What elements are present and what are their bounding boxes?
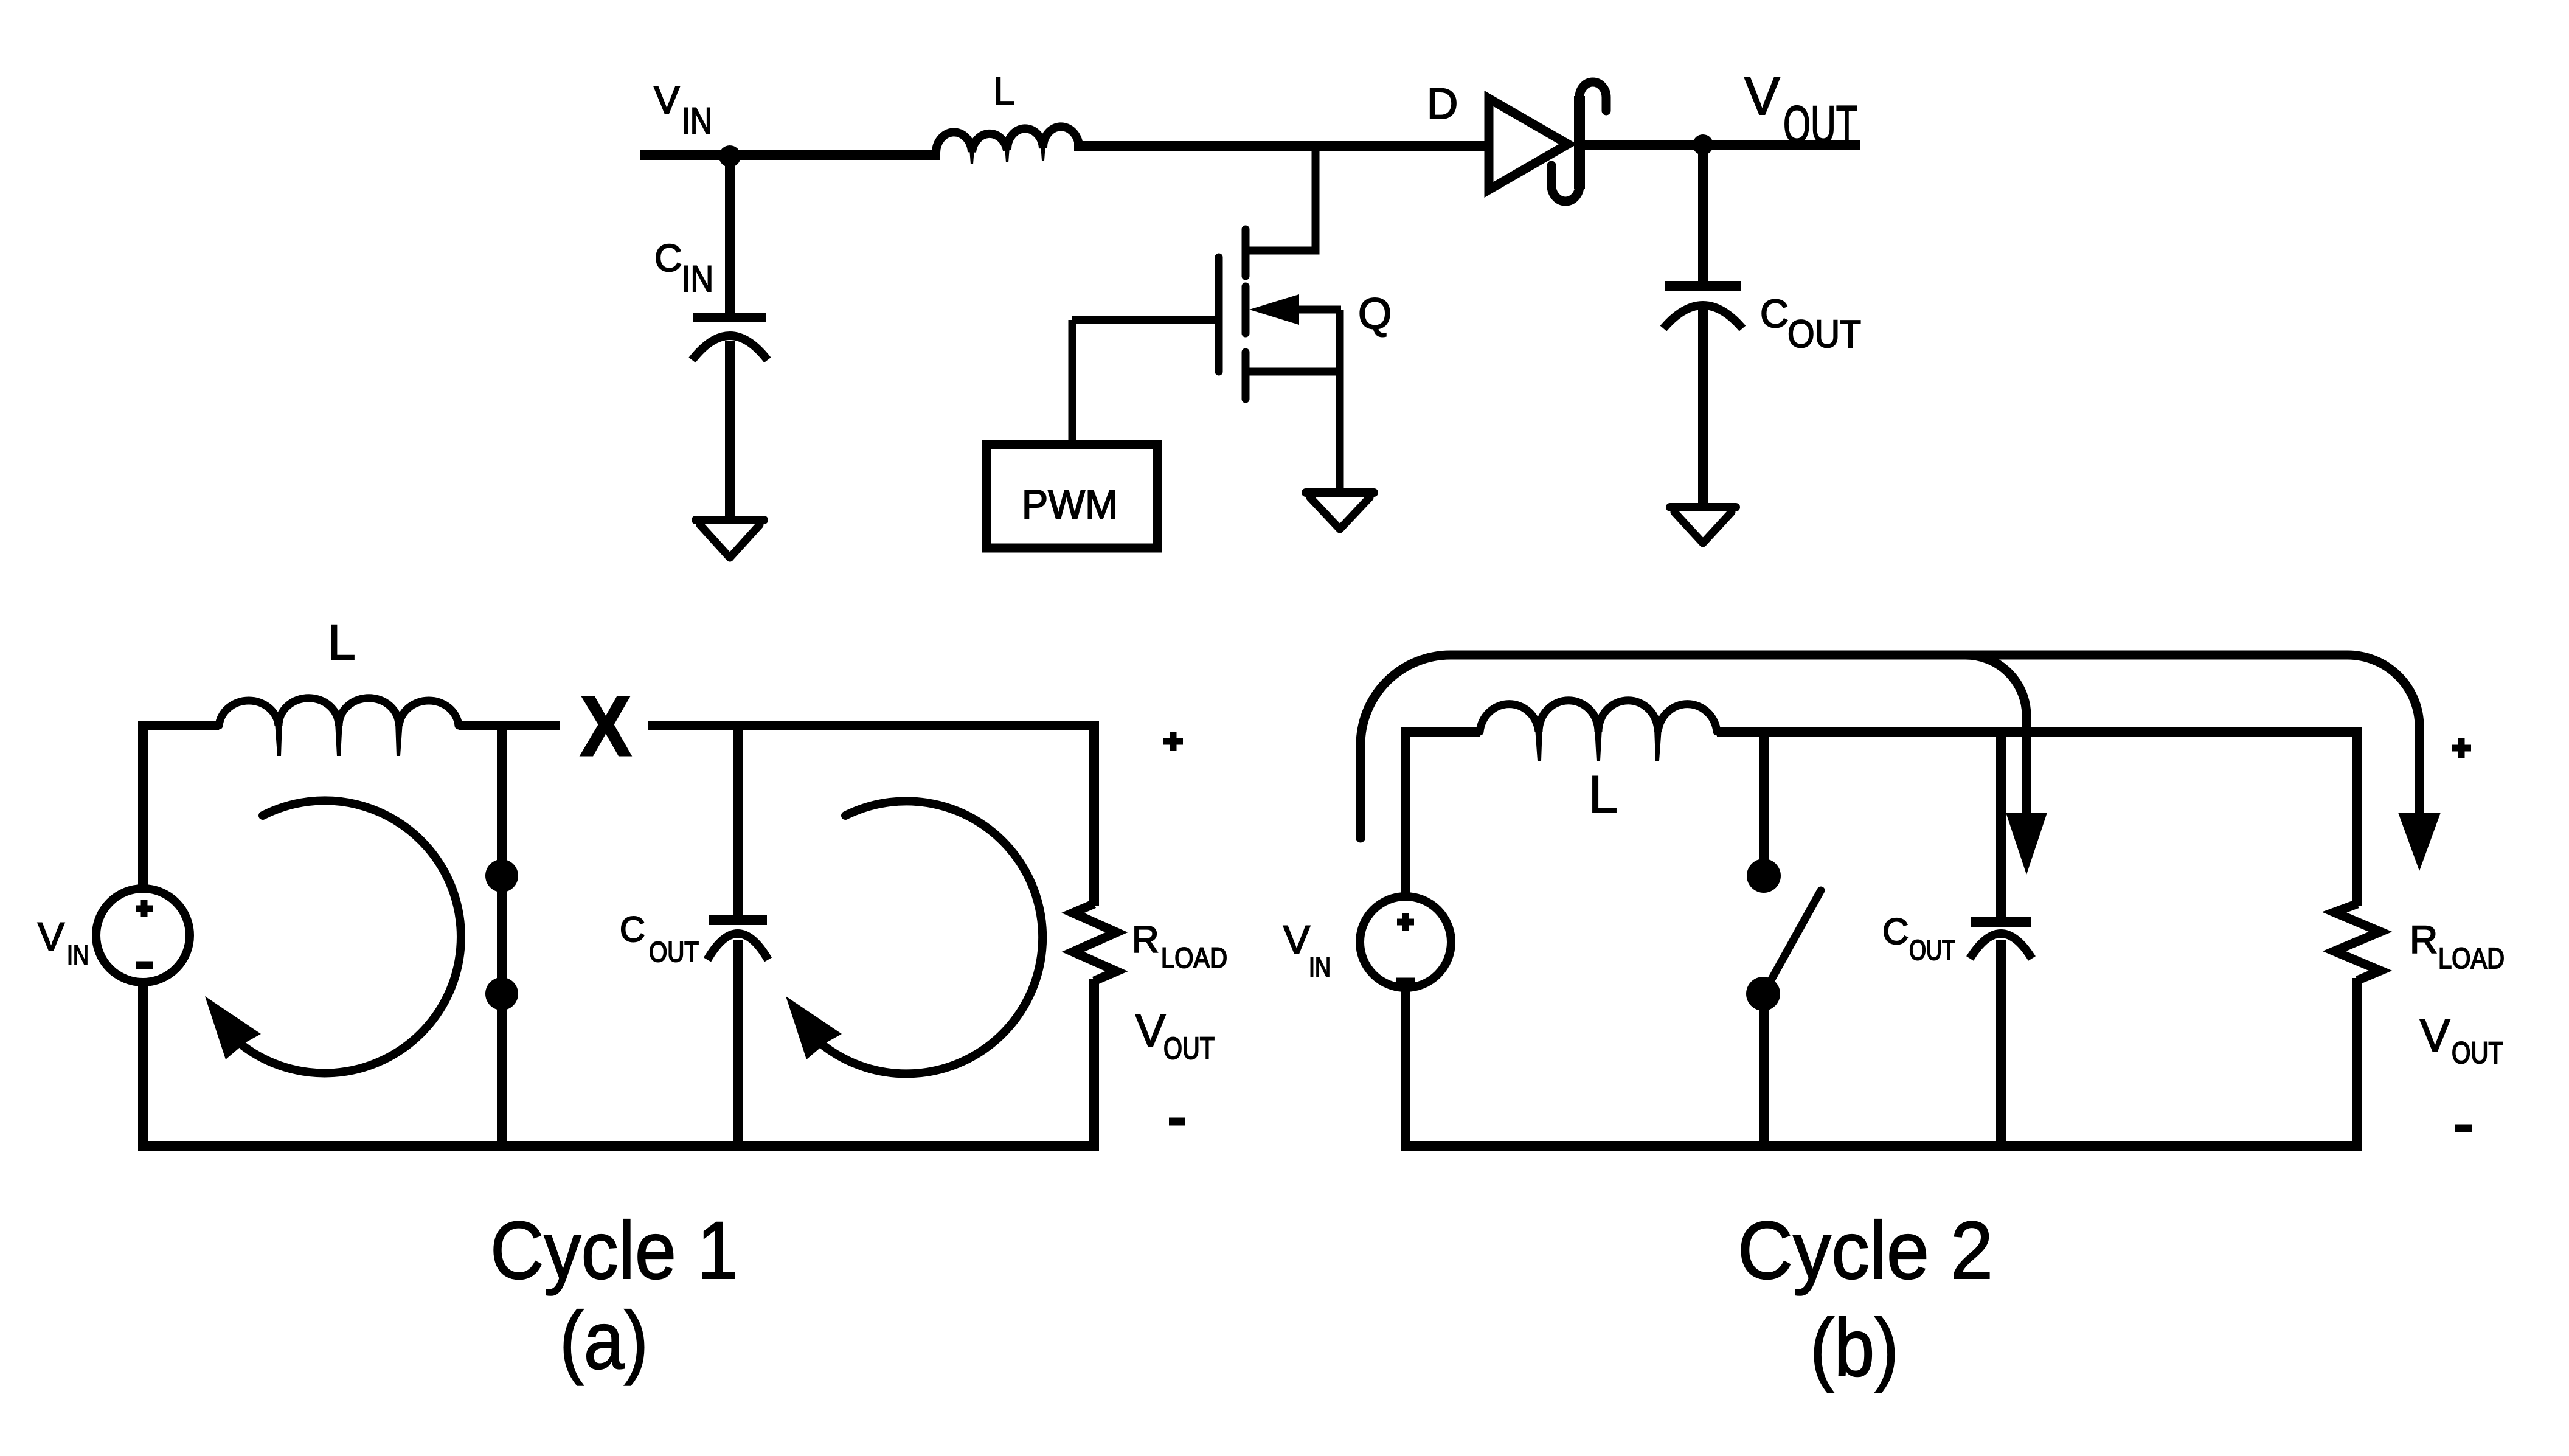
diode D cathode bar with schottky hooks [1551, 82, 1606, 201]
capacitor C_OUT plates (top) [1663, 286, 1742, 328]
ground (C_OUT top) [1670, 507, 1736, 543]
source V_IN (b) minus [1396, 978, 1415, 986]
label V_IN (b) [1283, 917, 1331, 983]
label (a) [560, 1295, 648, 1386]
ground (C_IN) [696, 520, 764, 558]
inductor L (b) [1480, 701, 1717, 761]
label V_OUT (a) [1135, 1005, 1215, 1066]
svg-text:C: C [620, 910, 645, 949]
svg-text:V: V [1135, 1005, 1166, 1056]
source V_IN (a) minus [136, 962, 153, 969]
svg-text:IN: IN [682, 258, 713, 299]
svg-text:OUT: OUT [1909, 934, 1955, 966]
svg-text:Q: Q [1358, 290, 1392, 338]
wire (b) switch stub lower [1759, 1010, 1769, 1146]
wire (a) switch branch [497, 726, 507, 1146]
svg-text:V: V [654, 78, 680, 122]
wire (a) left vertical bottom [138, 981, 148, 1151]
ground (Q source) [1306, 493, 1374, 529]
wire V_IN input rail [640, 150, 940, 160]
label - (b) [2455, 1125, 2472, 1132]
wire C_IN vertical [725, 156, 735, 313]
node V_OUT junction dot [1693, 134, 1713, 155]
switch lever (b) [1769, 890, 1821, 983]
svg-text:IN: IN [1309, 951, 1331, 983]
wire (b) right vertical bottom [2352, 978, 2362, 1146]
wire source [1247, 310, 1340, 490]
wire C_OUT vertical (top) [1698, 145, 1708, 281]
label V_IN [654, 78, 712, 141]
wire (a) right vertical top [1089, 726, 1099, 906]
wire inductor to diode [1074, 141, 1491, 151]
wire (b) switch stub upper [1759, 732, 1769, 860]
capacitor C_IN plates [692, 317, 768, 360]
wire (a) C_OUT branch bottom [733, 940, 743, 1146]
label D [1427, 80, 1458, 128]
transistor Q gate bar [1215, 257, 1223, 372]
svg-text:V: V [1283, 917, 1310, 962]
svg-text:IN: IN [682, 100, 712, 141]
node switch contact dot lower (b) [1746, 977, 1780, 1011]
wire (b) right vertical top [2352, 732, 2362, 906]
label V_OUT (top) [1744, 66, 1857, 154]
svg-text:Cycle 1: Cycle 1 [490, 1205, 738, 1296]
svg-text:C: C [1882, 911, 1909, 952]
svg-text:LOAD: LOAD [2438, 943, 2505, 975]
transistor Q channel bar segments [1242, 229, 1250, 399]
resistor R_LOAD (a) [1073, 904, 1117, 981]
svg-text:R: R [2410, 918, 2438, 962]
inductor L (a) [219, 698, 459, 756]
wire (b) left vertical bottom [1401, 986, 1410, 1151]
svg-text:Cycle 2: Cycle 2 [1738, 1205, 1993, 1296]
current path arrowhead right (b) [2398, 813, 2441, 871]
inductor L (top) [936, 127, 1079, 164]
label L (a) [328, 615, 356, 670]
label V_OUT (b) [2420, 1010, 2503, 1070]
diode D (Schottky) triangle [1489, 99, 1568, 190]
svg-text:L: L [328, 615, 356, 670]
wire (a) top rail middle [459, 721, 560, 730]
wire C_IN to ground [725, 341, 735, 517]
wire (b) C_OUT branch bottom [1996, 940, 2006, 1146]
svg-text:OUT: OUT [1787, 312, 1861, 356]
svg-text:D: D [1427, 80, 1458, 128]
current loop 2 arc (a) [824, 801, 1042, 1073]
wire (b) C_OUT branch top [1996, 732, 2006, 917]
svg-text:(a): (a) [560, 1295, 648, 1386]
node X (open switch mark) [580, 678, 631, 774]
svg-text:OUT: OUT [1783, 95, 1857, 154]
label (b) [1810, 1303, 1899, 1393]
source V_IN (b) circle [1360, 896, 1451, 988]
svg-text:V: V [38, 914, 64, 959]
wire (a) bottom rail [138, 1141, 1099, 1151]
label R_LOAD (b) [2410, 918, 2505, 975]
capacitor C_OUT (b) plates [1970, 922, 2032, 959]
wire (b) left vertical top [1401, 732, 1410, 898]
wire diode to V_OUT [1579, 140, 1860, 150]
node switch contact dot lower (a) [485, 977, 518, 1010]
transistor Q body arrow [1249, 294, 1341, 325]
svg-text:X: X [580, 678, 631, 774]
label + (a) [1163, 732, 1183, 751]
current loop 1 arrowhead (a) [205, 996, 261, 1059]
svg-text:OUT: OUT [649, 936, 699, 968]
label C_OUT (a) [620, 910, 699, 968]
label Q [1358, 290, 1392, 338]
node switch contact dot upper (b) [1747, 859, 1781, 893]
label - (a) [1169, 1118, 1185, 1126]
wire (a) C_OUT branch top [733, 726, 743, 915]
node V_IN junction dot [719, 145, 741, 167]
wire drain from rail [1247, 146, 1316, 251]
current loop 2 arrowhead (a) [786, 996, 842, 1059]
block PWM [986, 445, 1157, 548]
source V_IN (b) plus [1397, 913, 1414, 931]
wire gate [1072, 316, 1219, 324]
current loop 1 arc (a) [243, 800, 461, 1073]
node switch contact dot upper (a) [485, 859, 518, 892]
label C_OUT (top) [1760, 291, 1861, 356]
capacitor C_OUT (a) plates [707, 920, 768, 960]
wire PWM to gate [1069, 320, 1076, 445]
label C_IN [654, 237, 713, 299]
source V_IN (a) plus [136, 900, 153, 917]
svg-text:IN: IN [67, 939, 89, 971]
svg-text:L: L [1589, 766, 1618, 824]
svg-text:C: C [1760, 291, 1789, 336]
svg-text:LOAD: LOAD [1161, 941, 1227, 974]
svg-text:C: C [654, 237, 682, 280]
wire (b) top rail right [1717, 727, 2362, 737]
wire C_OUT to ground (top) [1698, 309, 1708, 504]
current path arrowhead middle (b) [2006, 813, 2047, 875]
svg-text:OUT: OUT [1163, 1031, 1215, 1066]
label L (top inductor) [993, 69, 1015, 113]
svg-text:L: L [993, 69, 1015, 113]
resistor R_LOAD (b) [2334, 904, 2380, 980]
source V_IN (a) circle [96, 889, 190, 982]
wire (b) bottom rail [1401, 1141, 2362, 1151]
wire (a) right vertical bottom [1089, 979, 1099, 1146]
label + (b) [2452, 738, 2471, 758]
svg-text:(b): (b) [1810, 1303, 1899, 1393]
wire (a) top rail right [648, 721, 1099, 730]
svg-text:V: V [1744, 66, 1780, 126]
wire (b) top rail left [1401, 727, 1480, 737]
svg-text:V: V [2420, 1010, 2450, 1061]
wire (a) top rail left [138, 721, 219, 730]
wire (a) left vertical top [138, 726, 148, 890]
label Cycle 1 [490, 1205, 738, 1296]
label V_IN (a) [38, 914, 89, 971]
label L (b) [1589, 766, 1618, 824]
label R_LOAD (a) [1132, 919, 1227, 974]
svg-text:OUT: OUT [2452, 1036, 2503, 1070]
label C_OUT (b) [1882, 911, 1955, 966]
label Cycle 2 [1738, 1205, 1993, 1296]
svg-text:PWM: PWM [1022, 482, 1118, 527]
svg-text:R: R [1132, 919, 1159, 961]
current path arrow main (b) [1361, 655, 2419, 838]
current path arrow branch (b) [1966, 655, 2026, 814]
